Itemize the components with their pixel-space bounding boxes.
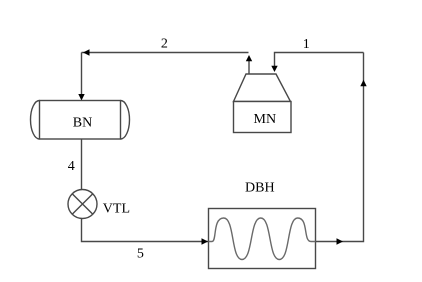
arrowhead pointing up on MN riser — [246, 55, 252, 61]
wire: DBH outlet to bottom-right corner then up — [316, 53, 364, 242]
arrowhead pointing left at line 2 corner — [83, 49, 90, 55]
wire: vertical drop from line 2 corner into vessel BN — [81, 53, 83, 97]
arrowhead pointing down into MN — [271, 66, 277, 72]
svg-text:4: 4 — [68, 159, 75, 174]
wire: BN bottom to valve VTL — [81, 139, 83, 190]
svg-text:1: 1 — [303, 37, 310, 52]
arrowhead pointing down into BN — [78, 94, 84, 101]
vessel BN (horizontal cylinder) — [31, 101, 130, 140]
arrowhead pointing right into DBH — [202, 238, 209, 244]
wire: line 2 horizontal from MN riser to left corner — [82, 52, 249, 54]
wire: MN riser up to line 2 — [248, 61, 250, 75]
svg-text:VTL: VTL — [103, 202, 130, 217]
valve VTL (circle with inscribed X) — [68, 190, 97, 219]
wire: line 1 horizontal from top-right corner to MN down-drop — [275, 53, 364, 67]
arrowhead pointing up on right riser — [360, 80, 366, 87]
svg-text:DBH: DBH — [245, 181, 275, 196]
svg-text:5: 5 — [137, 246, 144, 261]
heat exchanger DBH (box) — [209, 209, 316, 269]
wire: valve bottom to lower-left corner — [82, 219, 209, 242]
svg-text:MN: MN — [254, 112, 277, 127]
coil inside DBH — [209, 218, 316, 260]
svg-text:BN: BN — [73, 116, 92, 131]
arrowhead pointing right on DBH outlet — [337, 238, 344, 244]
compressor MN (hopper: trapezoid on box) — [234, 74, 292, 133]
svg-text:2: 2 — [161, 37, 168, 52]
